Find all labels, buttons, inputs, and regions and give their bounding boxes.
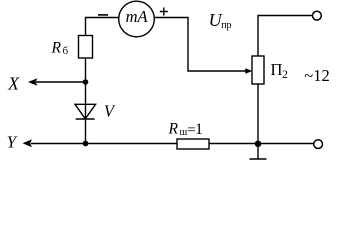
svg-text:R: R [51,40,62,57]
svg-text:1: 1 [195,121,203,138]
svg-text:2: 2 [282,67,288,81]
svg-text:Y: Y [7,133,18,152]
svg-text:X: X [7,74,20,94]
svg-text:пр: пр [221,20,231,31]
svg-text:~12: ~12 [304,66,329,85]
svg-text:б: б [63,45,69,57]
svg-text:mA: mA [126,7,149,26]
svg-text:ш: ш [180,127,188,138]
svg-text:R: R [168,121,179,138]
svg-text:П: П [271,60,283,79]
